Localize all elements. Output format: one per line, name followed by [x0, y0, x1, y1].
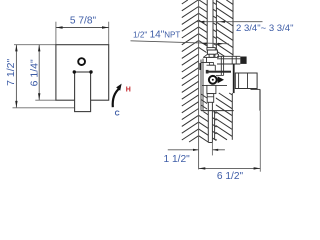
handle pivot dot left — [73, 70, 76, 73]
dimension line 6 1/4 (vertical) — [38, 45, 40, 100]
hole circle — [78, 58, 85, 65]
body left bracket lines — [200, 60, 202, 111]
leader arrow at pipe left — [201, 43, 207, 45]
pipe collar — [207, 48, 215, 50]
lower port flange — [207, 85, 216, 93]
leader line 1/2 14 NPT — [131, 41, 229, 44]
leader arrow at stud left — [218, 43, 224, 45]
body internal step lines — [202, 62, 214, 64]
cartridge eye ring — [209, 76, 217, 84]
extension line bottom of 6 1/4 (plate bottom level) — [35, 99, 56, 101]
extension line pipe right edge — [211, 143, 213, 156]
white clear for bottom pipe — [208, 111, 212, 143]
outlet dark cap — [240, 57, 246, 64]
bottom pipe — [207, 102, 209, 142]
rotation arrow C to H — [113, 88, 120, 107]
dimension line 7 1/2 (vertical) — [15, 45, 17, 108]
trim plate outline — [56, 45, 109, 100]
extension line vertical right of plate top dim — [108, 22, 110, 45]
svg-text:5 7/8": 5 7/8" — [70, 16, 97, 27]
clip dark rect — [199, 63, 201, 70]
dimension line 5 7/8 — [56, 26, 109, 28]
svg-text:6 1/2": 6 1/2" — [217, 171, 244, 182]
body right edge thick — [233, 64, 235, 93]
stem box right — [235, 73, 257, 89]
cartridge cone — [218, 76, 224, 83]
wall face fold line — [198, 0, 200, 169]
handle body — [75, 72, 91, 112]
dimension 6 1/2 — [199, 167, 261, 169]
svg-text:2 3/4"~ 3 3/4": 2 3/4"~ 3 3/4" — [236, 23, 293, 34]
body top edge — [203, 56, 218, 58]
white clear for valve — [199, 53, 234, 112]
svg-text:1/2" 14"NPT: 1/2" 14"NPT — [133, 30, 180, 41]
wall hatch right wing (\) — [199, 0, 217, 142]
wall stud band hatch upper — [216, 0, 233, 56]
svg-text:7 1/2": 7 1/2" — [5, 58, 17, 85]
extension line right for 6 1/2 — [259, 111, 261, 172]
wall hatch left wing (/) — [182, 0, 199, 142]
wall stud band hatch lower — [216, 93, 233, 140]
extension line bottom of 7 1/2 (handle bottom level) — [13, 107, 75, 109]
extension line top (plate top, to left dims) — [14, 44, 56, 46]
stem step line — [251, 88, 261, 90]
body internal verticals — [220, 56, 222, 75]
stem guide line down — [259, 89, 261, 110]
body shoulder bump — [215, 54, 219, 57]
dimension line 2 3/4 ~ 3 3/4 — [197, 21, 263, 23]
cartridge retainer dark bar — [208, 71, 231, 73]
nut step — [209, 54, 214, 57]
lower port nut — [207, 94, 214, 103]
handle pivot dot right — [89, 70, 92, 73]
body left shoulder slant — [203, 54, 207, 57]
dimension 1 1/2 — [168, 149, 225, 151]
outlet stub to spout — [217, 55, 240, 57]
svg-text:6 1/4": 6 1/4" — [28, 59, 40, 86]
svg-text:H: H — [126, 87, 131, 94]
svg-text:C: C — [115, 110, 120, 117]
body section hatch block — [201, 94, 207, 111]
extension line vertical left of plate top dim — [55, 22, 57, 45]
svg-text:1 1/2": 1 1/2" — [164, 154, 191, 165]
supply pipe top 1/2 NPT — [206, 0, 208, 48]
top nut — [207, 50, 217, 54]
white clear for top pipe — [207, 0, 213, 48]
body mid shelf line — [202, 84, 227, 86]
body bottom edge — [201, 110, 234, 112]
wall stud band borders — [215, 0, 217, 56]
